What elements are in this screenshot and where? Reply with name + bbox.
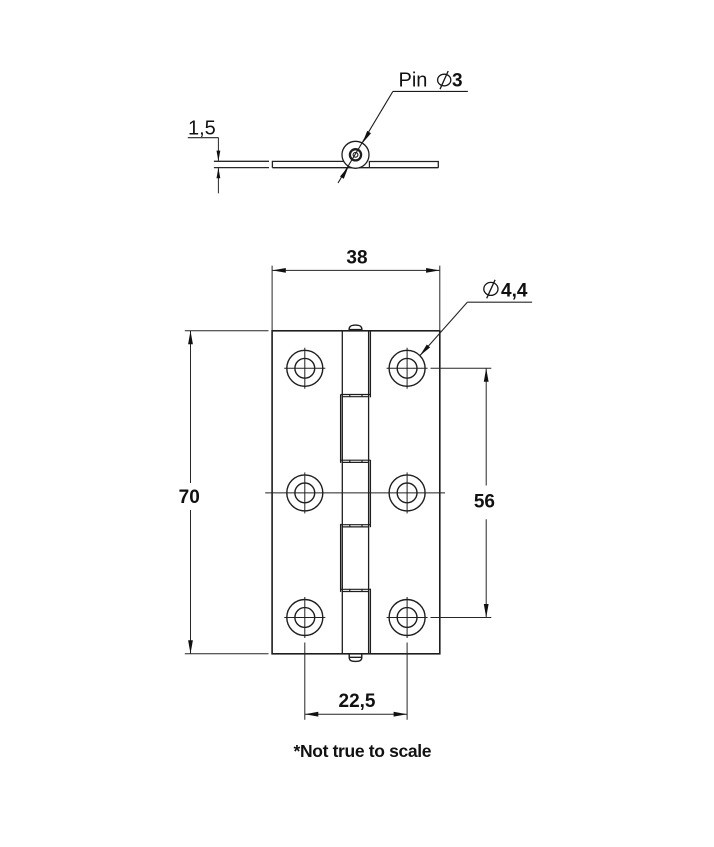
svg-text:56: 56 xyxy=(474,491,495,512)
diameter symbol of Pin label xyxy=(438,74,451,86)
hole bottom-left crosshair xyxy=(284,597,325,638)
side view left leaf (main plate) xyxy=(272,161,343,167)
dim56 top arrow xyxy=(484,368,489,382)
knuckle segment1 right double line xyxy=(369,331,371,398)
knuckle left vertical line xyxy=(341,331,343,654)
knuckle segment4 left double line xyxy=(340,524,342,592)
svg-text:70: 70 xyxy=(179,487,200,508)
dia4,4 arrow xyxy=(420,345,430,356)
dim38 extension lines xyxy=(272,266,440,331)
hole top-right crosshair xyxy=(387,348,428,389)
dimension 1,5 upper leader with down arrow xyxy=(217,138,219,161)
dia4,4 leader underline xyxy=(467,301,532,303)
dim70 extension lines xyxy=(185,331,269,654)
knuckle break 2 xyxy=(341,460,371,462)
hole bottom-right inner circle xyxy=(397,608,417,628)
side view right leaf xyxy=(369,162,439,168)
dim22,5 left arrow xyxy=(305,712,319,717)
pin cross-section circle xyxy=(353,152,358,157)
hole top-left inner circle xyxy=(295,358,315,378)
dia4,4 leader diagonal xyxy=(420,302,468,356)
pin leader horizontal underline xyxy=(393,90,468,92)
hole top-right outer circle xyxy=(389,350,425,386)
knuckle break 1 xyxy=(341,395,371,397)
hinge leaf outline rectangle xyxy=(272,331,440,654)
hole mid-right outer circle xyxy=(389,475,425,511)
svg-text:*Not true to scale: *Not true to scale xyxy=(294,741,432,761)
knuckle segment2 left double line xyxy=(340,394,342,463)
dim38 left arrow xyxy=(272,268,286,273)
dim22,5 dimension line xyxy=(305,713,407,715)
hole mid-left inner circle xyxy=(295,483,315,503)
dim38 dimension line xyxy=(272,269,439,271)
pin diameter leader diagonal line xyxy=(338,91,393,183)
dim38 right arrow xyxy=(426,268,440,273)
hole bottom-left outer circle xyxy=(287,600,323,636)
pin leader lower arrow xyxy=(340,166,349,178)
svg-text:3: 3 xyxy=(452,71,463,92)
barrel ring (knuckle wall) xyxy=(350,149,361,160)
svg-text:22,5: 22,5 xyxy=(339,691,376,712)
svg-text:38: 38 xyxy=(346,248,367,269)
dim70 top arrow xyxy=(188,331,193,345)
pin leader upper arrow xyxy=(362,131,371,143)
dim70 dimension line xyxy=(190,331,192,654)
hole mid-right vertical crosshair xyxy=(406,472,408,513)
knuckle segment5 right double line xyxy=(369,589,371,654)
dimension 1,5 lower leader with up arrow xyxy=(217,168,219,193)
side view plate bottom line xyxy=(272,167,438,169)
side view left leaf edge (short piece) xyxy=(214,161,269,167)
middle row long centerline xyxy=(265,492,445,494)
barrel outer circle xyxy=(342,141,369,168)
dim22,5 right arrow xyxy=(394,712,408,717)
hole top-left crosshair xyxy=(284,348,325,389)
svg-text:1,5: 1,5 xyxy=(188,117,216,139)
knuckle right vertical line xyxy=(368,331,370,654)
knuckle segment3 right double line xyxy=(369,460,371,527)
hole bottom-left inner circle xyxy=(295,608,315,628)
hole bottom-right outer circle xyxy=(389,600,425,636)
svg-text:4,4: 4,4 xyxy=(501,281,528,302)
hole bottom-right crosshair xyxy=(387,597,428,638)
dim56 bottom arrow xyxy=(484,604,489,618)
dia4,4 diameter symbol xyxy=(484,282,498,295)
svg-text:Pin: Pin xyxy=(399,69,428,91)
dimension 1,5 shoulder line xyxy=(188,137,219,139)
knuckle break 4 xyxy=(341,589,371,591)
hole top-left outer circle xyxy=(287,350,323,386)
knuckle break 3 xyxy=(341,525,371,527)
dim22,5 extension lines xyxy=(305,643,407,720)
hole mid-left outer circle xyxy=(287,475,323,511)
dim56 extension lines xyxy=(431,368,492,617)
pin bottom cap xyxy=(349,654,362,662)
dim70 bottom arrow xyxy=(188,640,193,654)
hole top-right inner circle xyxy=(397,358,417,378)
dim56 dimension line xyxy=(485,368,487,617)
side view right leaf end cap at barrel xyxy=(368,162,370,168)
hole mid-left vertical crosshair xyxy=(304,472,306,513)
hole mid-right inner circle xyxy=(397,483,417,503)
pin top cap xyxy=(349,325,362,331)
